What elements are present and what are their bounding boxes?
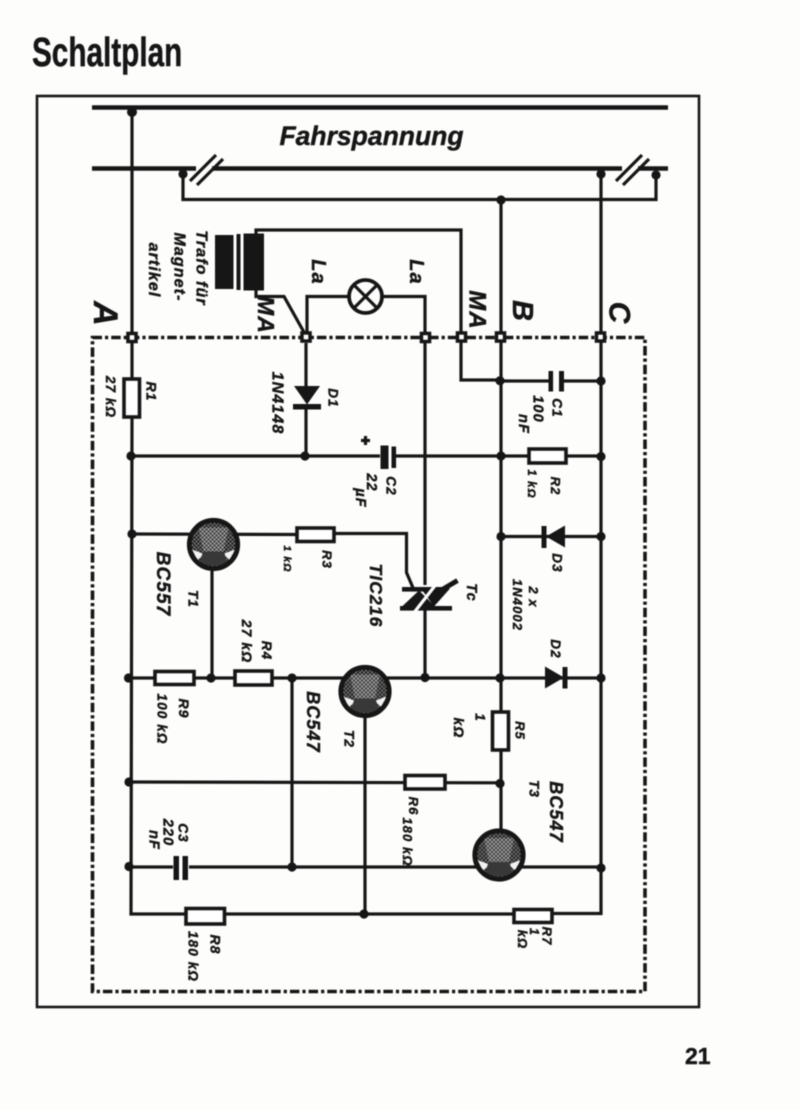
lamp branch wire left [307, 297, 349, 335]
wire: T2 emitter down [363, 712, 366, 914]
wire: left bus from top rail down to R1 [130, 107, 133, 379]
resistor R4 [235, 671, 272, 685]
junction on top rail [127, 107, 137, 117]
svg-text:BC547: BC547 [303, 691, 323, 753]
capacitor C2 (electrolytic) [381, 446, 389, 470]
transistor T1 [189, 520, 237, 568]
wire: T1 base row [132, 532, 297, 536]
rail lower conductor middle segment [212, 166, 622, 171]
transformer Trafo fuer Magnetartikel [215, 235, 234, 289]
triac TIC216 [402, 587, 443, 592]
svg-text:1: 1 [473, 713, 488, 722]
junction rail2 left [178, 169, 187, 178]
wire: transformer secondary bottom to MA node (diagonal) [256, 289, 305, 334]
terminal square B [495, 331, 507, 343]
junction C3 branch / bottom rail [287, 862, 296, 871]
svg-text:C2: C2 [384, 476, 399, 495]
svg-text:artikel: artikel [145, 243, 162, 298]
wire x292 vertical [290, 678, 293, 867]
svg-text:R3: R3 [320, 550, 335, 569]
wire: C2 row left part [131, 454, 380, 457]
svg-text:kΩ: kΩ [451, 718, 467, 739]
junction left bus / R9 [124, 673, 133, 682]
svg-text:C: C [603, 302, 636, 325]
svg-text:R9: R9 [176, 698, 192, 718]
svg-text:C3: C3 [176, 823, 191, 842]
terminal square lamp right [420, 332, 432, 344]
transistor T3 [475, 831, 523, 879]
junction D1 / C2 row [300, 451, 309, 460]
wire: T1 collector down [210, 560, 213, 678]
svg-text:Tc: Tc [463, 583, 479, 602]
junction rail2 at C branch [596, 169, 605, 178]
svg-text:R6: R6 [406, 797, 421, 816]
wire: C branch vertical down to bottom [552, 172, 601, 914]
junction triac MT1 [420, 673, 429, 682]
wire: bottom rail right of C3 [189, 865, 601, 868]
svg-text:21: 21 [685, 1043, 711, 1069]
wire: R9/R4/T2/D2 row [128, 676, 601, 679]
junction rail2 right [651, 170, 660, 179]
break symbol left [190, 155, 216, 181]
capacitor C1 [549, 371, 554, 392]
svg-text:T2: T2 [342, 730, 357, 748]
junction C bus / D2 row [596, 673, 605, 682]
diode D2 [545, 667, 564, 689]
rail top (Fahrspannung upper conductor) [92, 105, 668, 110]
junction left bus / C2 row [126, 451, 135, 460]
terminal square A [126, 332, 138, 344]
junction left bus / bottom rail [124, 862, 133, 871]
lamp branch wire right [382, 297, 425, 335]
diode D1 [294, 386, 320, 405]
svg-text:R2: R2 [548, 477, 563, 496]
svg-text:µF: µF [352, 487, 368, 507]
junction left bus / T1 base [127, 529, 136, 538]
junction C bus / D3 row [596, 532, 605, 541]
svg-text:T3: T3 [527, 780, 542, 798]
wire: bypass jumper around rail breaks [183, 171, 656, 200]
junction B bus / D2 row [495, 673, 504, 682]
wire: bottom rail left of C3 [130, 865, 173, 868]
resistor R2 [529, 449, 566, 463]
wire: C2 row right part [396, 454, 601, 457]
svg-text:R4: R4 [259, 641, 274, 660]
svg-text:D3: D3 [550, 553, 565, 572]
dash-dot boundary box [93, 338, 646, 992]
wire: R3 to triac gate [334, 534, 414, 590]
svg-text:La: La [405, 259, 427, 285]
svg-text:D1: D1 [326, 388, 341, 407]
svg-text:1N4002: 1N4002 [510, 579, 525, 631]
transistor T2 [341, 667, 389, 715]
svg-text:Trafo für: Trafo für [193, 230, 210, 305]
wire: D1 cathode down to C2 row [304, 409, 307, 456]
junction T2 emitter / bottom wire [359, 909, 368, 918]
svg-text:kΩ: kΩ [515, 930, 530, 950]
svg-text:TIC216: TIC216 [366, 564, 386, 628]
svg-text:Magnet-: Magnet- [171, 232, 188, 301]
wire: R6 row [129, 780, 500, 784]
junction R5 / R6 / T3 [495, 779, 504, 788]
svg-text:MA: MA [464, 290, 491, 330]
svg-text:27 kΩ: 27 kΩ [239, 619, 255, 664]
junction C bus / bottom rail [596, 863, 605, 872]
svg-text:T1: T1 [186, 590, 201, 608]
svg-text:D2: D2 [548, 639, 563, 658]
outer frame [37, 96, 699, 1007]
rail lower conductor right segment [638, 166, 668, 171]
wire: D3 row B to C [501, 535, 601, 538]
svg-text:R1: R1 [144, 381, 160, 401]
svg-text:27 kΩ: 27 kΩ [103, 375, 118, 418]
terminal square C [595, 331, 607, 343]
wire: MA square down to D1 [304, 343, 307, 387]
break symbol right [616, 155, 642, 181]
svg-text:R5: R5 [513, 721, 528, 740]
resistor R1 [124, 379, 140, 417]
junction T1 collector [206, 673, 215, 682]
wire: transformer secondary top to MA node [256, 230, 499, 380]
svg-text:100 kΩ: 100 kΩ [155, 694, 170, 745]
resistor R8 [186, 909, 225, 925]
capacitor C3 [174, 856, 180, 880]
junction C3 branch [287, 673, 296, 682]
svg-text:1 kΩ: 1 kΩ [281, 545, 293, 572]
svg-text:Schaltplan: Schaltplan [32, 29, 182, 75]
resistor R9 [155, 672, 194, 685]
junction C bus / R2 row [596, 452, 605, 461]
terminal square MA right [456, 331, 468, 343]
wire: C1 row right part [564, 379, 601, 382]
svg-text:C1: C1 [550, 398, 565, 417]
resistor R7 [514, 910, 552, 923]
resistor R5 [493, 712, 509, 750]
svg-text:180 kΩ: 180 kΩ [186, 931, 201, 982]
svg-text:nF: nF [515, 414, 531, 434]
svg-text:1N4148: 1N4148 [269, 372, 286, 435]
lamp La (circle with cross) [349, 280, 382, 313]
terminal square MA left [300, 331, 312, 343]
svg-text:R8: R8 [208, 934, 224, 954]
svg-text:BC547: BC547 [546, 781, 566, 843]
svg-text:A: A [86, 300, 124, 327]
junction of B branch on jumper [496, 195, 505, 204]
svg-text:La: La [307, 259, 329, 285]
svg-text:180 kΩ: 180 kΩ [400, 817, 415, 866]
svg-text:B: B [506, 300, 538, 322]
wire: left bus below R1 down to bottom corner [131, 417, 514, 914]
svg-text:Fahrspannung: Fahrspannung [279, 121, 463, 151]
junction B bus / R2 row [496, 451, 505, 460]
wire: R5 bottom to T3 [499, 750, 502, 832]
resistor R6 [405, 776, 445, 790]
wire: B branch vertical [499, 200, 502, 712]
junction B bus / C1 row [495, 376, 504, 385]
svg-text:MA: MA [253, 296, 279, 334]
rail lower conductor left segment [92, 166, 196, 171]
junction B bus / D3 row [496, 532, 505, 541]
diode D3 [546, 526, 565, 548]
junction left bus / R6 row [124, 777, 133, 786]
svg-text:2 x: 2 x [526, 585, 541, 607]
junction C bus / C1 row [596, 376, 605, 385]
resistor R3 [297, 528, 334, 542]
wire: lamp right branch down through to triac [423, 343, 426, 585]
wire: C1 row left part [500, 379, 549, 382]
svg-text:1 kΩ: 1 kΩ [525, 469, 537, 498]
svg-text:nF: nF [146, 830, 162, 850]
svg-text:BC557: BC557 [152, 552, 173, 617]
